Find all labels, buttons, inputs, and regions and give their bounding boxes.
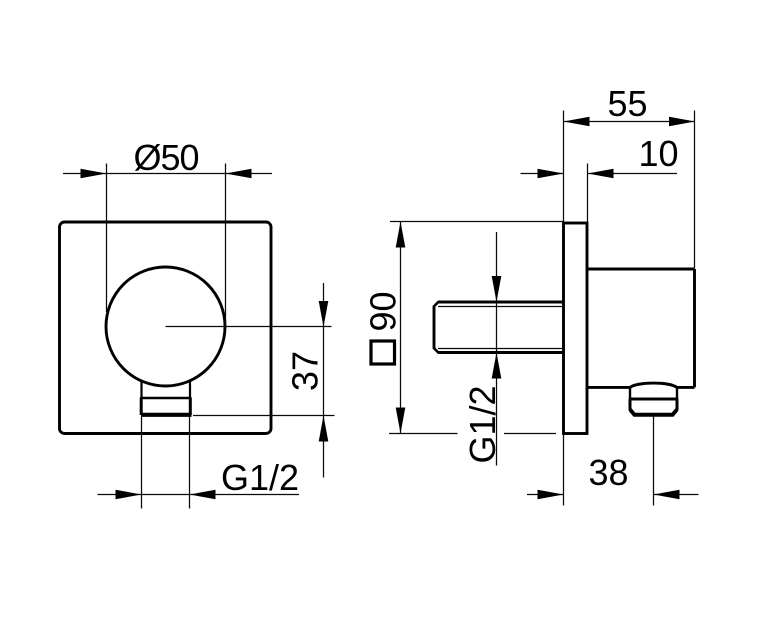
pipe thread line bottom: [438, 348, 564, 350]
G1/2 side arrow down: [492, 276, 502, 302]
rosette circle: [106, 267, 225, 386]
G1/2 extension left: [141, 417, 143, 509]
outlet hump arc: [630, 383, 677, 387]
55 arrow left: [564, 117, 590, 127]
dimension 37 arrow bottom: [319, 416, 329, 442]
dimension 10 right tail: [588, 173, 678, 175]
nut body: [141, 398, 192, 415]
G1/2 arrow left: [116, 490, 142, 500]
nut top line: [140, 397, 192, 399]
dimension G1/2 side line: [496, 232, 498, 466]
side nut lower band: [630, 399, 677, 415]
55 arrow right: [669, 117, 695, 127]
90 arrow bottom: [396, 408, 406, 434]
dimension Ø50 line: [63, 173, 272, 175]
svg-text:55: 55: [607, 83, 647, 124]
body bottom edge right segment: [677, 386, 695, 389]
90 arrow top: [396, 222, 406, 248]
outlet neck right line: [189, 380, 191, 399]
dimension 38 right tail: [654, 494, 699, 496]
svg-text:90: 90: [363, 291, 404, 331]
body right edge: [693, 269, 696, 387]
centre line of circle: [166, 326, 332, 328]
dimension 37 line: [323, 283, 325, 478]
svg-text:10: 10: [638, 133, 678, 174]
side nut upper band: [629, 387, 678, 399]
10 arrow left: [538, 169, 564, 179]
svg-text:G1/2: G1/2: [462, 385, 503, 463]
outlet neck left line: [140, 380, 142, 398]
dimension G1/2 line (front): [98, 494, 300, 496]
G1/2 extension right: [189, 417, 191, 509]
dimension Ø50 extension left: [106, 164, 108, 313]
90 extension top: [390, 221, 563, 223]
svg-text:38: 38: [588, 452, 628, 493]
supply pipe outline: [433, 302, 563, 353]
10 extension: [587, 164, 589, 223]
body bottom edge left segment: [587, 386, 630, 389]
90 extension bottom right part: [504, 433, 556, 435]
wall plate side: [564, 223, 588, 434]
svg-text:37: 37: [285, 351, 326, 391]
svg-text:G1/2: G1/2: [221, 457, 299, 498]
dimension Ø50 arrow left: [81, 169, 107, 179]
dimension Ø50 extension right: [225, 164, 227, 329]
G1/2 side arrow up: [492, 353, 502, 379]
55 extension left / wall surface: [563, 111, 565, 223]
dimension 90 line: [400, 222, 402, 434]
10 arrow right: [588, 169, 614, 179]
svg-text:Ø50: Ø50: [133, 137, 198, 178]
front plate square: [60, 222, 272, 434]
38 extension right (outlet axis): [653, 417, 655, 506]
square symbol of 90: [371, 341, 395, 364]
G1/2 arrow right: [190, 490, 216, 500]
dimension Ø50 arrow right: [226, 169, 252, 179]
38 arrow left: [538, 490, 564, 500]
dimension 37 arrow top: [319, 301, 329, 327]
dimension 10 left tail: [521, 173, 564, 175]
pipe chamfer bottom-left: [433, 348, 438, 353]
dimension 38 left tail: [527, 494, 564, 496]
90 extension bottom left part: [389, 433, 458, 435]
55 extension right: [694, 111, 696, 269]
dimension 55 line: [564, 121, 696, 123]
38 extension left (wall): [563, 435, 565, 506]
pipe thread line top: [438, 306, 564, 308]
extension line outlet bottom: [193, 415, 335, 417]
pipe chamfer top-left: [433, 302, 438, 307]
38 arrow right: [654, 490, 680, 500]
body top edge: [587, 268, 695, 271]
